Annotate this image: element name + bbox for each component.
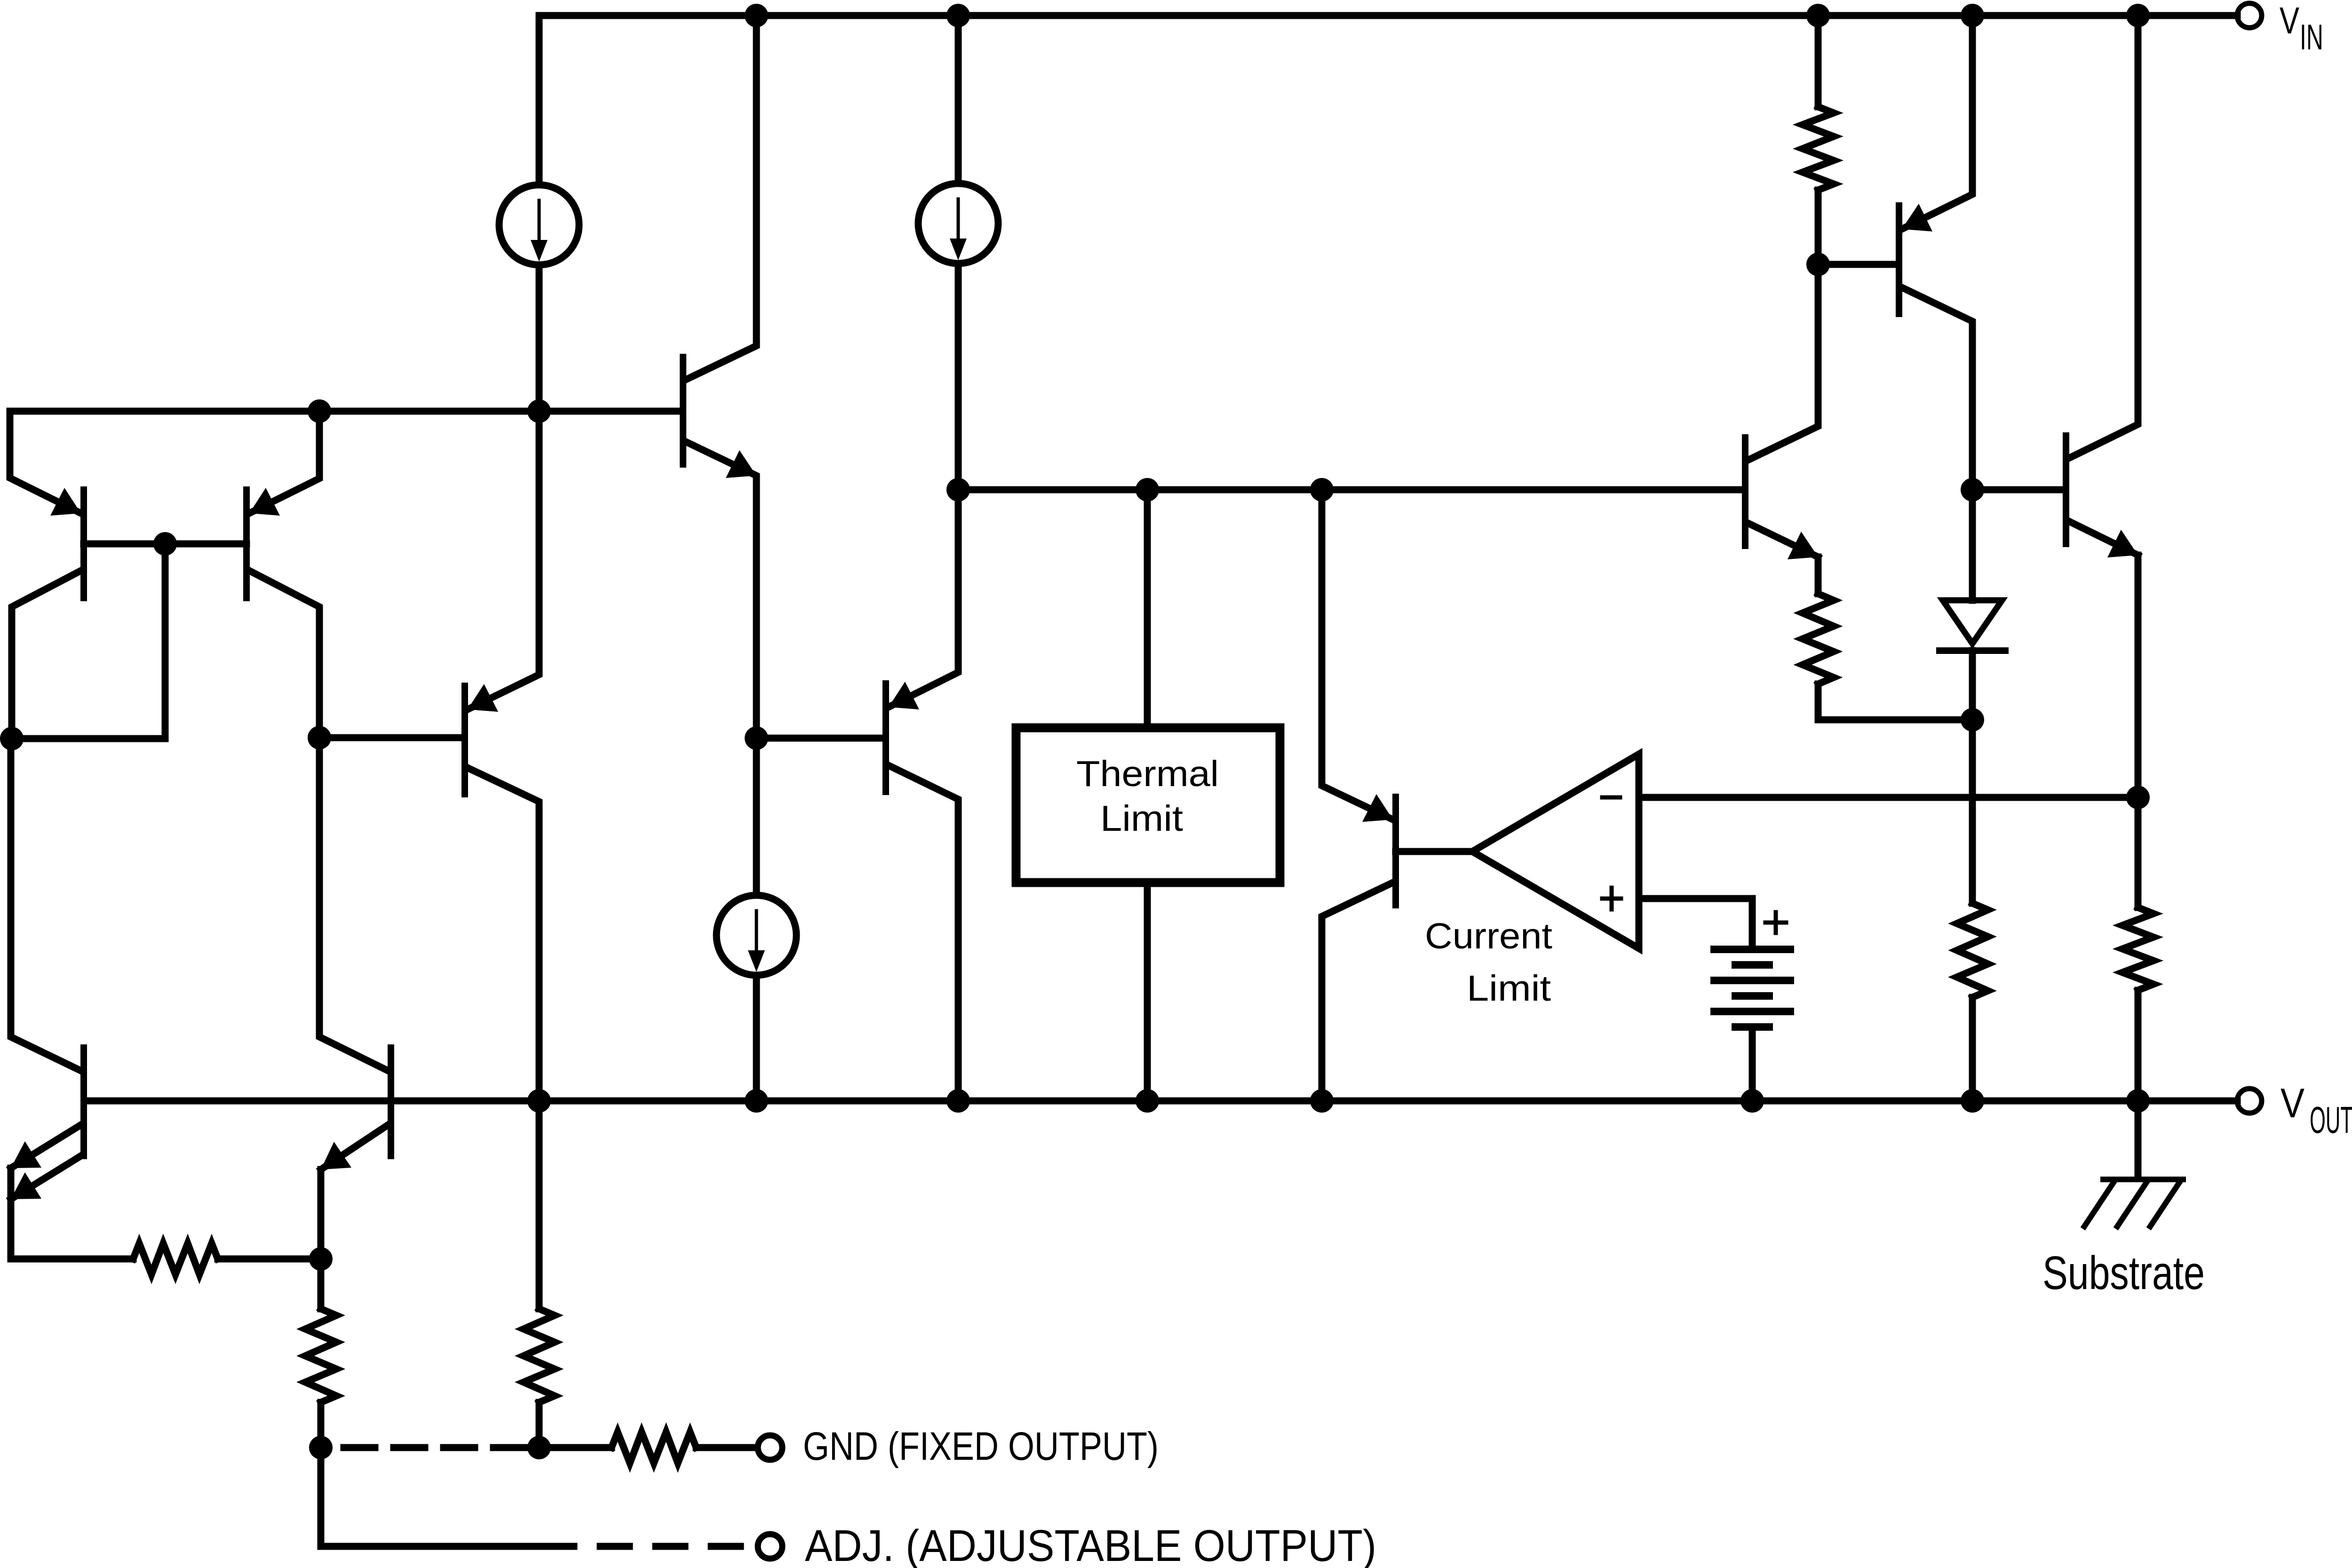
- svg-text:Limit: Limit: [1467, 968, 1551, 1009]
- svg-text:V: V: [2280, 1080, 2304, 1126]
- svg-text:V: V: [2280, 0, 2300, 41]
- svg-text:OUT: OUT: [2310, 1099, 2352, 1141]
- svg-text:Thermal: Thermal: [1076, 754, 1219, 794]
- svg-text:IN: IN: [2300, 17, 2323, 57]
- svg-text:Current: Current: [1425, 916, 1552, 956]
- svg-text:Substrate: Substrate: [2042, 1247, 2205, 1299]
- svg-text:GND (FIXED OUTPUT): GND (FIXED OUTPUT): [803, 1424, 1159, 1468]
- svg-text:Limit: Limit: [1100, 798, 1183, 839]
- svg-text:ADJ. (ADJUSTABLE OUTPUT): ADJ. (ADJUSTABLE OUTPUT): [805, 1521, 1376, 1568]
